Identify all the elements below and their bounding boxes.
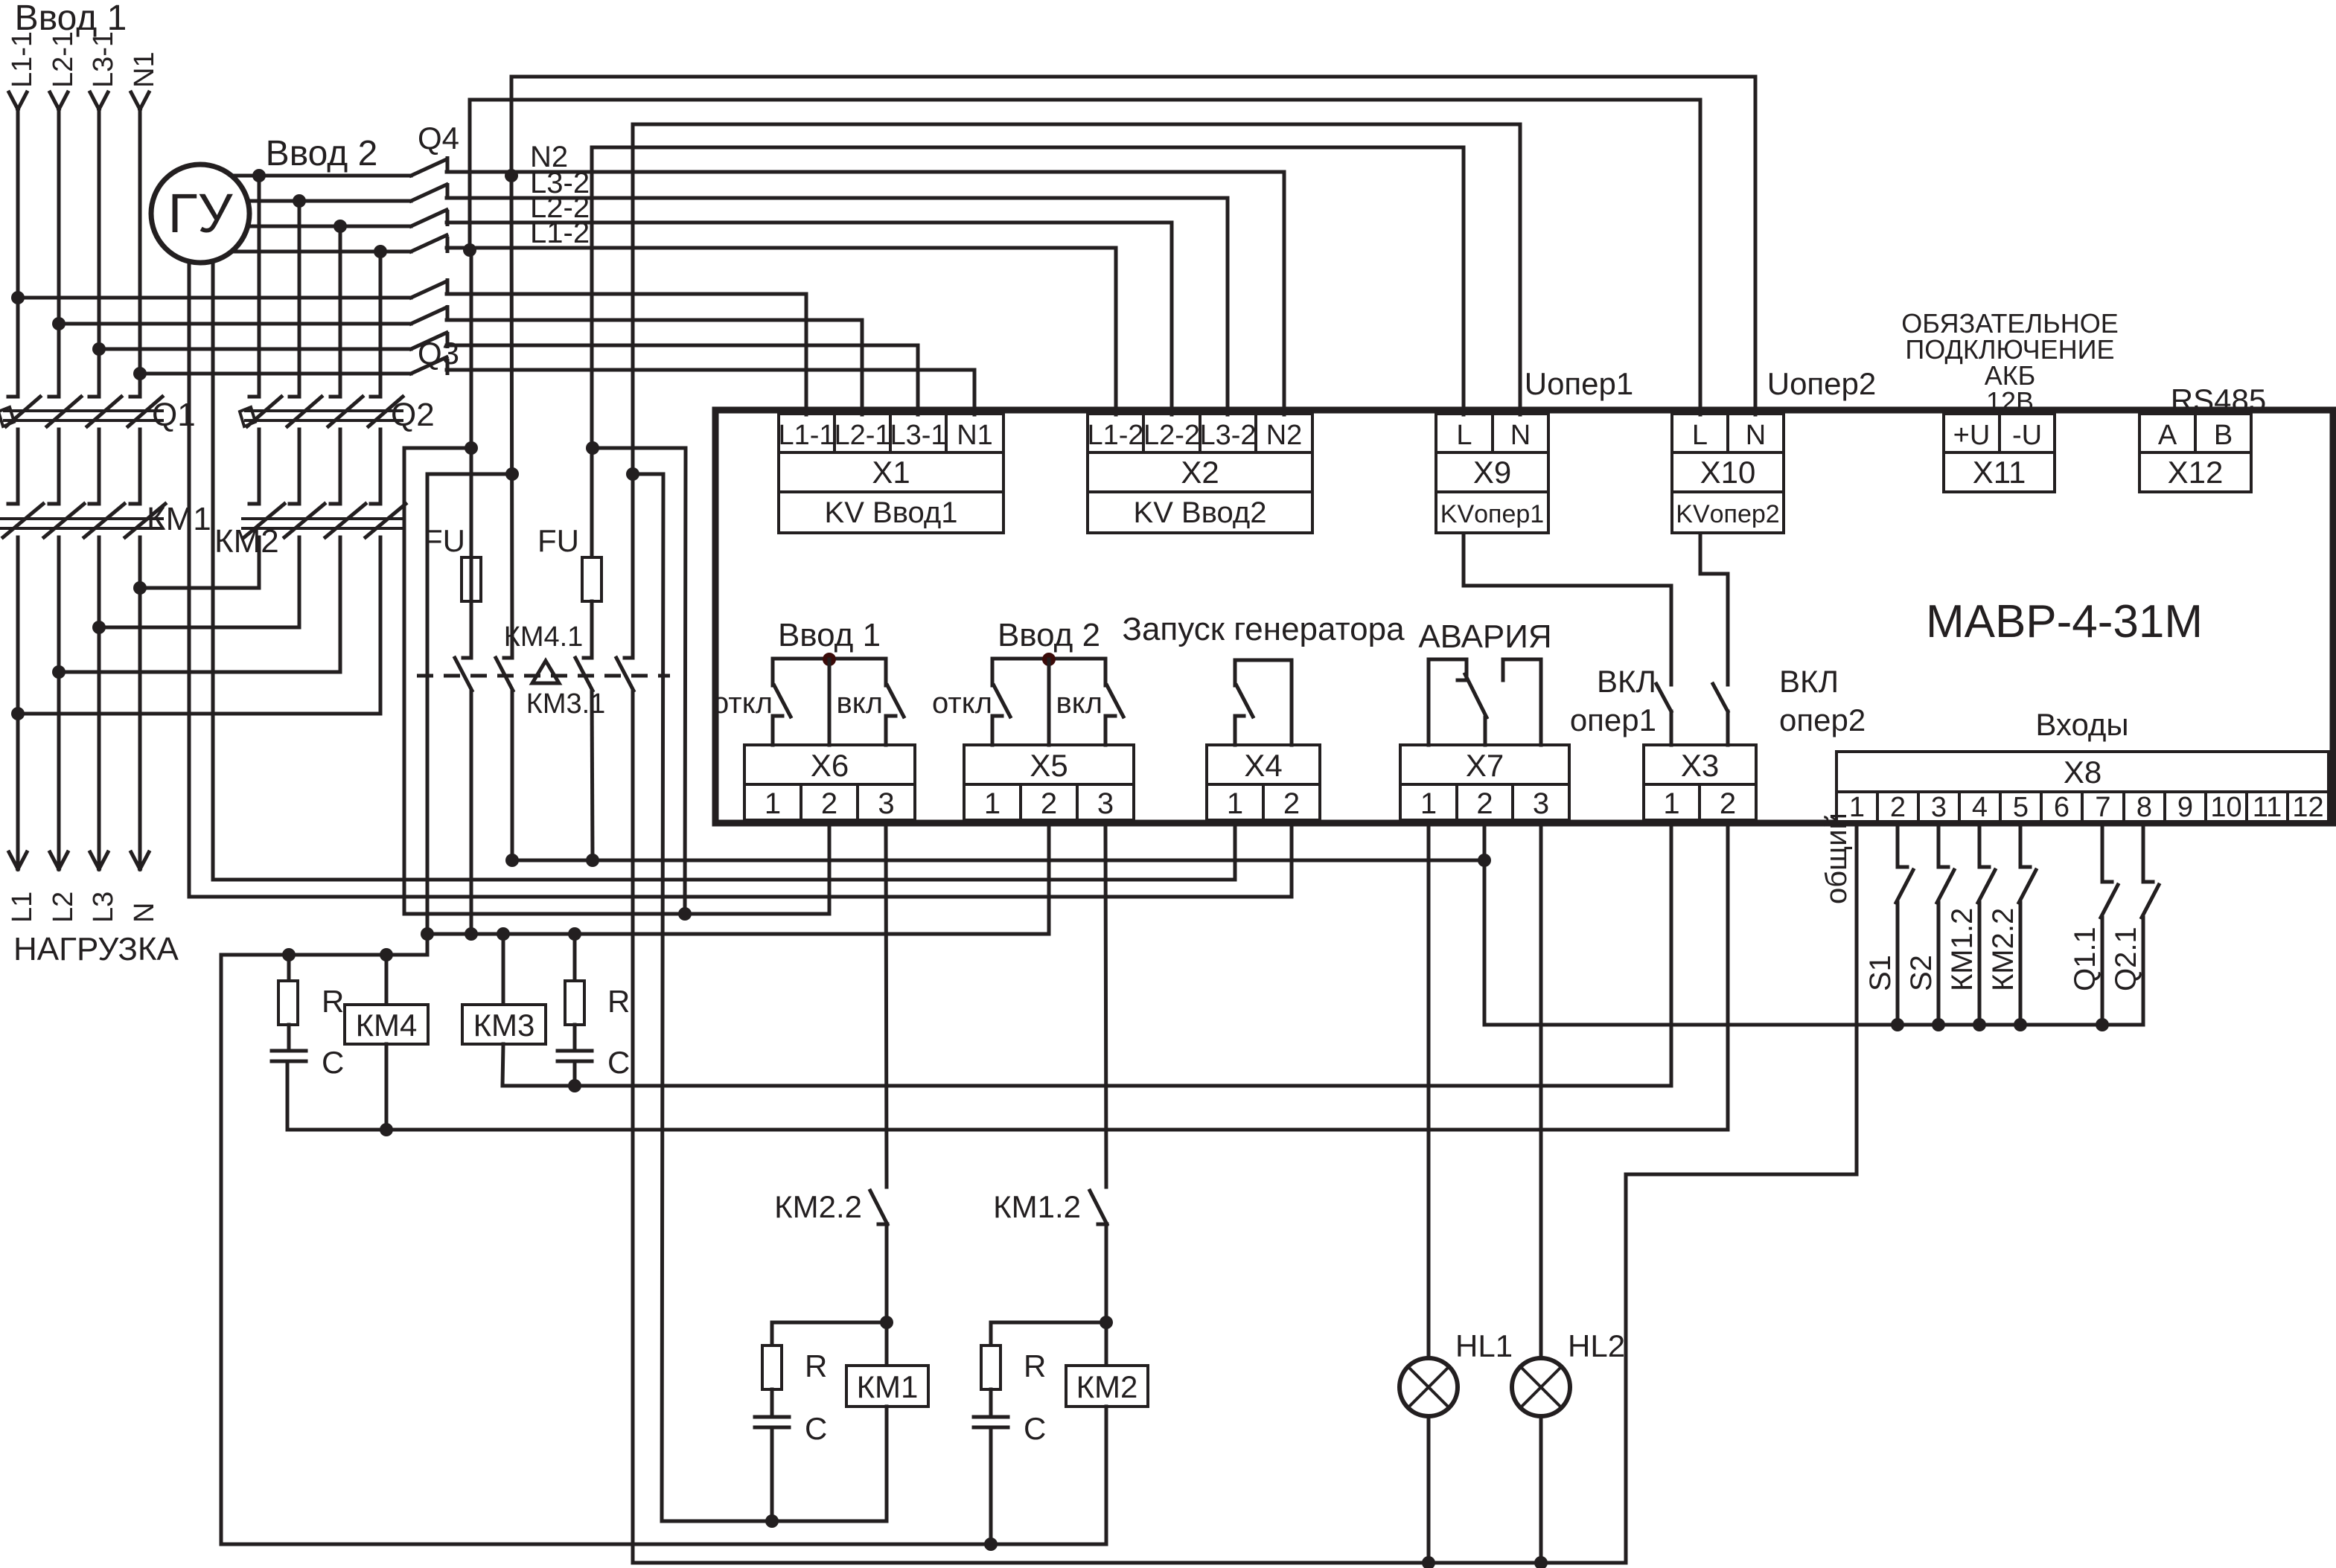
svg-text:4: 4 [1972,792,1988,823]
wire x297 [220,955,223,1544]
contact КМ4.1 pole a [463,656,471,660]
svg-text:9: 9 [2177,792,2193,823]
svg-text:5: 5 [2013,792,2029,823]
load feeder L2 [57,537,61,869]
svg-text:2: 2 [1041,787,1057,820]
capacitor C (KM2 group) [989,1389,993,1415]
svg-text:L3-1: L3-1 [890,420,946,451]
delta symbol [532,661,559,683]
relay contact group Ввод 1 (X6) [773,657,886,661]
svg-text:Q2.1: Q2.1 [2110,927,2142,991]
wire N1 bus [140,372,411,376]
terminal block X11 [1944,414,2000,452]
bus H7 KM4 return to X3-2 [287,826,1728,1130]
wire N2 chain x688 [511,176,512,658]
svg-text:L2-2: L2-2 [1143,420,1200,451]
svg-text:опер1: опер1 [1570,703,1656,737]
svg-text:A: A [2158,420,2177,451]
wire X7-1 to HL1 [1427,826,1431,1358]
svg-text:-U: -U [2012,420,2042,451]
svg-text:ГУ: ГУ [167,182,233,244]
svg-text:КМ2: КМ2 [1076,1369,1138,1404]
svg-text:R: R [607,984,630,1019]
svg-text:ВКЛ: ВКЛ [1779,664,1839,699]
svg-text:N1: N1 [129,51,160,88]
resistor R (KM2 group) [991,1322,1106,1345]
svg-text:X6: X6 [811,748,849,783]
svg-text:FU: FU [424,523,465,558]
svg-text:L1-1: L1-1 [7,31,38,88]
terminal block X9 [1436,414,1493,452]
svg-text:R: R [322,984,344,1019]
wire x688 to H1 [511,691,514,860]
svg-text:Ввод 1: Ввод 1 [778,617,881,653]
svg-text:Q1: Q1 [152,397,196,433]
svg-text:КМ2.2: КМ2.2 [1987,908,2020,991]
svg-text:X2: X2 [1181,455,1219,490]
wire x633 to H5 [470,691,473,934]
svg-text:L: L [1456,420,1472,451]
svg-text:X7: X7 [1466,748,1504,783]
bus H2 generator start 1 [213,826,1235,880]
svg-text:КМ3: КМ3 [473,1008,535,1043]
coil КМ4 [385,955,389,1005]
svg-text:Q1.1: Q1.1 [2069,927,2102,991]
terminal block X2 [1088,414,1143,452]
contact КМ3.1 pole b [625,656,633,660]
svg-text:откл: откл [932,687,992,720]
svg-text:вкл: вкл [1056,687,1102,720]
svg-text:C: C [805,1411,827,1446]
svg-text:X9: X9 [1473,455,1511,490]
terminal block X5 [964,745,1134,784]
breaker Q2 [246,409,402,412]
wire node x574 [426,474,430,955]
lamp HL2 [1512,1358,1570,1416]
terminal block X8 [1836,752,2329,792]
svg-text:KVопер1: KVопер1 [1440,500,1544,528]
wire L1-2 loop to X10-L [470,100,1700,415]
terminal block X4 [1207,745,1320,784]
svg-text:3: 3 [1931,792,1947,823]
capacitor C (KM4 group) [287,1025,291,1049]
svg-text:вкл: вкл [836,687,883,720]
device МАВР-4-31М box [715,410,2333,823]
svg-text:МАВР-4-31М: МАВР-4-31М [1926,596,2203,647]
resistor R (KM1 group) [772,1322,887,1345]
svg-text:2: 2 [821,787,837,820]
svg-text:Uопер2: Uопер2 [1767,366,1877,401]
wire L1-1 bus [18,296,411,300]
relay contact group Ввод 2 (X5) [992,657,1105,661]
switch ВКЛ опер2 (X3-2) [1726,711,1730,745]
wire KVопер2 to X3-2 switch [1700,534,1728,640]
svg-text:X11: X11 [1973,455,2026,490]
svg-text:Ввод 2: Ввод 2 [266,134,378,173]
svg-text:КМ1.2: КМ1.2 [1946,908,1979,991]
input switch Q1.1 [2101,826,2104,882]
svg-text:X3: X3 [1681,748,1719,783]
contact КМ2.2 [870,1191,887,1224]
svg-text:3: 3 [1533,787,1549,820]
svg-text:B: B [2214,420,2233,451]
svg-text:C: C [607,1045,630,1080]
svg-text:1: 1 [1663,787,1679,820]
svg-text:7: 7 [2095,792,2110,823]
bus H3 generator start 2 [189,826,1292,897]
coil КМ1 [885,1322,889,1366]
wires Q2 poles from Ввод2 dots [258,176,261,397]
wire X6-3 down [886,826,887,1187]
wire x795 to H1 [592,691,593,860]
svg-text:N2: N2 [1266,420,1303,451]
svg-text:1: 1 [765,787,781,820]
svg-text:2: 2 [1890,792,1906,823]
load feeder L1 [16,537,20,869]
svg-text:L1-2: L1-2 [530,217,590,249]
svg-text:2: 2 [1476,787,1493,820]
bus inputs common y1377 [1484,1023,2143,1027]
svg-text:X8: X8 [2064,755,2102,790]
svg-text:АВАРИЯ: АВАРИЯ [1418,618,1551,655]
load feeder N [138,537,142,869]
svg-text:Ввод 2: Ввод 2 [998,617,1100,653]
load arrows НАГРУЗКА [9,852,18,869]
terminal block X1 [779,414,834,452]
wire L1-2 line [447,246,1116,250]
wire x850 to bottom bus [631,691,635,1563]
svg-text:X12: X12 [2168,455,2224,490]
wire L3-1 bus [99,348,411,351]
svg-text:L: L [1692,420,1708,451]
svg-text:КМ1: КМ1 [147,501,211,537]
svg-text:1: 1 [984,787,1001,820]
input switch Q2.1 [2142,826,2145,882]
svg-text:+U: +U [1953,420,1991,451]
svg-text:C: C [322,1045,344,1080]
svg-text:Uопер1: Uопер1 [1525,366,1634,401]
svg-text:Q4: Q4 [418,121,459,156]
svg-text:2: 2 [1283,787,1300,820]
mechanical link dashed КМ4.1/КМ3.1 [417,674,670,678]
svg-text:ВКЛ: ВКЛ [1597,664,1656,699]
capacitor C (KM3 group) [573,1025,577,1049]
svg-text:6: 6 [2054,792,2069,823]
svg-text:C: C [1024,1411,1046,1446]
svg-text:RS485: RS485 [2171,383,2266,417]
terminal block X10 [1672,414,1728,452]
svg-text:L3-1: L3-1 [88,31,119,88]
wires ГУ to Q4 [200,174,411,178]
relay contact Запуск генератора (X4) [1235,659,1292,662]
resistor R (KM3 group) [573,934,577,981]
bus H1 relay common [512,859,1484,863]
wire X6-2 control loop [403,448,406,914]
terminal block X3 [1644,745,1756,784]
breaker Q4 [411,159,447,176]
wire to X9-N [633,124,1520,415]
wire to X9-L [592,147,1464,415]
svg-text:KV Ввод1: KV Ввод1 [825,496,958,529]
bus H5 KM3 coil feed [427,826,1049,934]
contact КМ3.1 pole a [584,656,592,660]
svg-text:L3: L3 [88,892,119,923]
KM2 output staircase to load [140,537,259,588]
svg-text:R: R [1024,1348,1046,1383]
svg-text:L1-2: L1-2 [1087,420,1143,451]
svg-text:Запуск генератора: Запуск генератора [1122,611,1405,647]
bus H8 KM3 return to X3-1 [502,826,1671,1086]
switch ВКЛ опер1 (X3-1) [1670,711,1673,745]
wire X8-1 общий [1626,826,1857,1563]
svg-text:N: N [1746,420,1766,451]
svg-text:КМ4: КМ4 [356,1008,418,1043]
svg-text:X5: X5 [1030,748,1068,783]
svg-text:X1: X1 [872,455,910,490]
svg-text:11: 11 [2253,792,2282,823]
wire y602 right segment [593,448,686,914]
wire y641 left segment [427,473,512,476]
svg-text:L2: L2 [48,892,79,923]
svg-text:общий: общий [1820,813,1853,904]
fuse FU (left) [462,557,481,601]
wire y641 right segment [633,474,663,1521]
svg-text:3: 3 [878,787,894,820]
svg-text:откл: откл [712,687,773,720]
fuse FU (right) [582,557,601,601]
wire L2-2 line [447,221,1172,225]
wire X7-3 to HL2 [1539,826,1543,1358]
svg-text:опер2: опер2 [1779,703,1866,737]
input switch S1 [1896,826,1900,867]
svg-text:L2-1: L2-1 [834,420,890,451]
svg-text:8: 8 [2136,792,2152,823]
terminal block X12 [2139,414,2195,452]
svg-text:X4: X4 [1244,748,1282,783]
wire L2-1 bus [59,322,411,326]
svg-text:Q3: Q3 [418,336,459,371]
breaker Q3 [411,281,447,298]
bottom bus common lamps [633,1561,1626,1565]
svg-text:КМ2: КМ2 [214,523,279,560]
svg-text:КМ3.1: КМ3.1 [526,688,606,720]
junction L1-2/x631 [463,243,476,257]
load feeder L3 [98,537,101,869]
input switch КМ1.2 [1978,826,1982,867]
svg-text:HL2: HL2 [1568,1328,1625,1363]
svg-text:X10: X10 [1700,455,1756,490]
svg-text:1: 1 [1420,787,1437,820]
svg-text:S2: S2 [1905,955,1938,991]
capacitor C (KM1 group) [770,1389,774,1415]
contactor КМ1 [1,517,162,520]
lamp HL1 [1400,1358,1458,1416]
bus H4 X6-2 [404,826,829,914]
svg-text:L2-1: L2-1 [48,31,79,88]
svg-text:FU: FU [537,523,579,558]
contact КМ4.1 pole b [504,656,512,660]
junction dots on input poles [11,291,25,304]
svg-text:КМ1.2: КМ1.2 [993,1189,1081,1224]
svg-text:KVопер2: KVопер2 [1676,500,1779,528]
coil КМ3 [502,934,505,1005]
wire KVопер1 to X3-1 switch [1464,534,1671,640]
svg-text:КМ4.1: КМ4.1 [504,621,584,653]
svg-text:Q2: Q2 [391,397,435,433]
input arrows Ввод1 [16,109,20,397]
wire N2 line [447,170,1284,174]
svg-text:S1: S1 [1864,955,1897,991]
terminal block X6 [744,745,915,784]
contact КМ1.2 [1090,1191,1107,1224]
svg-text:N1: N1 [957,420,993,451]
terminal block X7 [1400,745,1569,784]
svg-text:10: 10 [2210,792,2241,823]
bus H6 KM4 coil feed [221,953,427,957]
contactor КМ2 [243,517,402,520]
wire y602 left segment [404,447,471,450]
wire X5-3 down [1105,826,1106,1187]
wire X7-2 down [1483,826,1487,1025]
wire X9-L chain x795 [590,147,594,557]
svg-text:КМ2.2: КМ2.2 [774,1189,862,1224]
wire L3-2 line [447,196,1228,200]
wire N2 top loop to X10-N [511,77,1755,415]
wire FU2 to contact [590,601,594,658]
wire X9-N chain x850 [631,124,635,658]
svg-text:L1-1: L1-1 [778,420,834,451]
breaker Q1 [4,409,162,412]
junction N2/x687 [505,169,518,182]
input switch КМ2.2 [2019,826,2023,867]
svg-text:12В: 12В [1986,386,2034,417]
input switch S2 [1937,826,1941,867]
svg-text:N: N [1510,420,1531,451]
junction dots Ввод2 [252,169,266,182]
svg-text:HL1: HL1 [1455,1328,1513,1363]
generator ГУ circle [188,223,191,897]
svg-text:N: N [129,903,160,923]
svg-text:КМ1: КМ1 [857,1369,919,1404]
svg-text:НАГРУЗКА: НАГРУЗКА [13,931,179,967]
wire FU1 chain from L1-2 [470,250,473,557]
svg-text:KV Ввод2: KV Ввод2 [1134,496,1267,529]
svg-text:12: 12 [2292,792,2323,823]
svg-text:1: 1 [1227,787,1243,820]
wire FU1 to contact [470,601,473,658]
svg-text:L3-2: L3-2 [1199,420,1256,451]
resistor R (KM4 group) [287,955,291,981]
coil КМ2 [1105,1322,1108,1366]
svg-text:L1: L1 [7,892,38,923]
relay changeover АВАРИЯ (X7) [1429,659,1467,745]
svg-text:R: R [805,1348,827,1383]
svg-text:3: 3 [1097,787,1114,820]
svg-text:2: 2 [1720,787,1736,820]
svg-text:Входы: Входы [2035,707,2128,742]
